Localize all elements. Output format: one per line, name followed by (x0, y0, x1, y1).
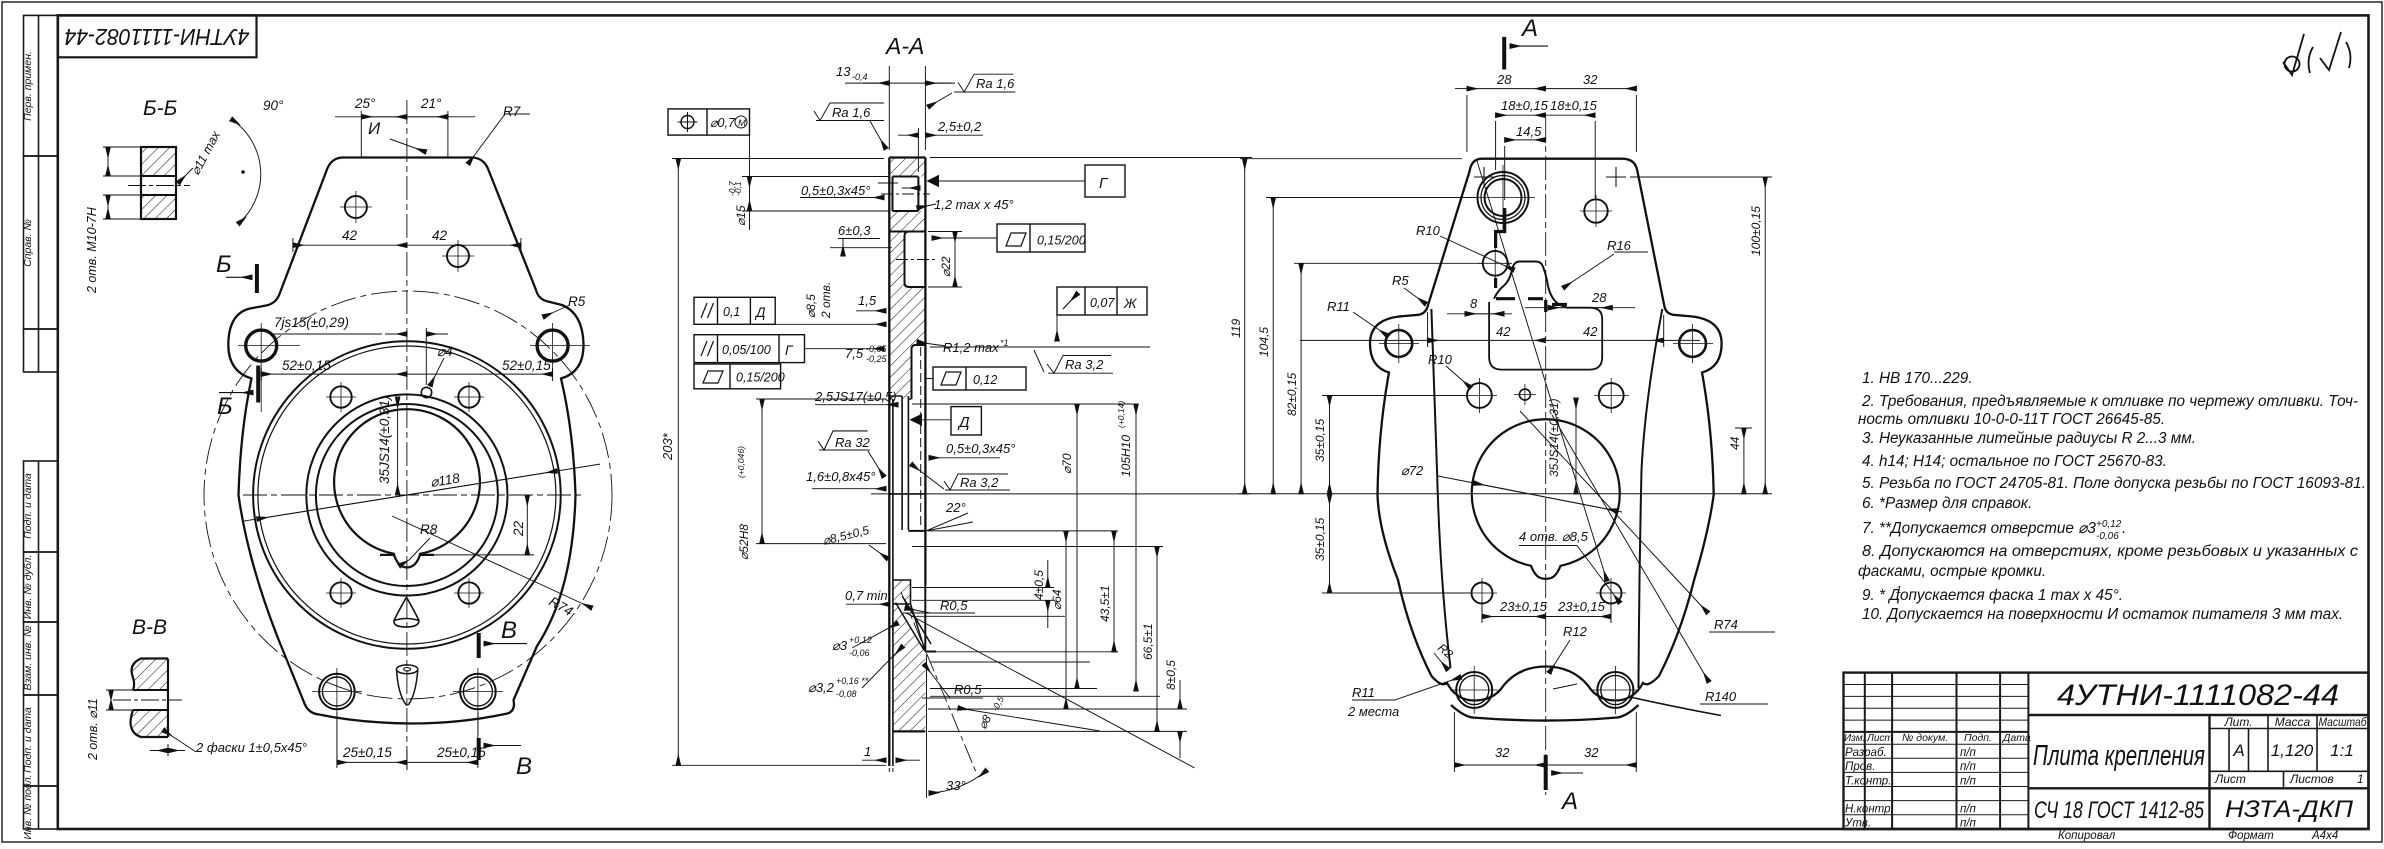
left side dims of section (672, 135, 962, 772)
svg-text:Масса: Масса (2275, 715, 2311, 729)
R0,5 lower leader (922, 697, 983, 699)
svg-text:100±0,15: 100±0,15 (1749, 206, 1763, 256)
bolt hole top-left (330, 386, 351, 407)
⌀22 counterbore cavity (905, 232, 926, 288)
svg-text:0,07: 0,07 (1090, 296, 1115, 310)
svg-text:В: В (501, 617, 517, 644)
svg-text:4УТНИ-1111082-44: 4УТНИ-1111082-44 (2057, 679, 2339, 712)
svg-text:28: 28 (1496, 72, 1512, 87)
vertical dim 66,5±1 (1156, 547, 1158, 732)
svg-text:Подп. и дата: Подп. и дата (22, 473, 34, 539)
svg-text:М: М (738, 118, 746, 129)
bottom edge sag (1451, 705, 1639, 721)
svg-text:№ докум.: № докум. (1902, 732, 1948, 744)
section A-A dimension texts (660, 64, 1178, 793)
leader R74 (392, 516, 592, 608)
4 отв ⌀8,5 leader (1519, 545, 1577, 547)
svg-text:п/п: п/п (1960, 761, 1977, 773)
view3 horizontal baseline (1239, 493, 1773, 495)
long leader to ⌀8,5 hole (1477, 161, 1607, 581)
svg-text:Ra 3,2: Ra 3,2 (960, 475, 999, 490)
svg-text:R74: R74 (547, 594, 576, 619)
90° countersink arc (231, 119, 261, 224)
dim 13-0,4 (888, 66, 890, 150)
svg-text:Ra 1,6: Ra 1,6 (976, 76, 1015, 91)
datum flag Г (927, 165, 1126, 197)
svg-text:6. *Размер для справок.: 6. *Размер для справок. (1862, 495, 2032, 512)
ear hole right (1679, 330, 1706, 357)
svg-text:⌀8,5: ⌀8,5 (804, 294, 818, 318)
svg-text:⌀0,7: ⌀0,7 (710, 116, 736, 130)
dim 32/32 (1453, 712, 1455, 772)
tolerance frame slope 0,07 Ж (1057, 287, 1147, 341)
svg-text:Б: Б (217, 393, 233, 420)
central bore with bottom notch (334, 409, 480, 567)
dim ⌀15 (742, 176, 890, 178)
svg-text:23±0,15: 23±0,15 (1557, 599, 1606, 614)
dim 52±0,15 / 52±0,15 (260, 368, 262, 381)
hump profile (1494, 262, 1566, 307)
view3 outline (1370, 159, 1722, 701)
svg-text:Плита крепления: Плита крепления (2033, 740, 2205, 772)
svg-text:14,5: 14,5 (1516, 124, 1542, 139)
small step near 0,7 min (893, 580, 911, 604)
feeder channel walls (896, 597, 932, 651)
bottom margin annotations (2058, 830, 2338, 842)
svg-text:-0,06: -0,06 (849, 648, 870, 658)
leader R10 #1 (1440, 236, 1514, 270)
view3 dim texts (1229, 15, 1763, 815)
view1 dimensions (243, 111, 600, 770)
feeder mark lower (cone) (396, 665, 417, 674)
svg-text:Изм.: Изм. (1844, 733, 1865, 744)
svg-text:Н.контр.: Н.контр. (1845, 804, 1894, 816)
svg-text:А: А (1520, 15, 1538, 42)
dim 119 (1244, 159, 1246, 494)
dim ⌀22 (830, 247, 892, 249)
flange face at center height (889, 493, 925, 495)
chamfer leader (163, 730, 196, 752)
title block texts (1844, 679, 2367, 830)
svg-text:42: 42 (342, 228, 358, 243)
leader 1,2 max x 45° (917, 204, 936, 208)
svg-text:А: А (1560, 788, 1578, 815)
svg-text:R10: R10 (1416, 223, 1441, 238)
bottom hole right (460, 674, 496, 710)
svg-text:-0,05: -0,05 (866, 344, 888, 354)
dim 42/42 (1427, 312, 1429, 347)
hatch fills (890, 158, 925, 731)
svg-text:⌀22: ⌀22 (939, 256, 953, 277)
svg-text:-0,4: -0,4 (852, 72, 868, 82)
svg-text:2 места: 2 места (1347, 704, 1399, 719)
leader R7 (468, 114, 505, 164)
svg-text:6±0,3: 6±0,3 (838, 223, 871, 238)
dim 42/42 (292, 238, 294, 252)
dim 35±0,15 lower (1329, 494, 1331, 593)
view1 casting reference circle (dash-dot) (204, 291, 612, 699)
svg-text:0,15/200: 0,15/200 (1037, 234, 1086, 248)
leader И (390, 139, 426, 152)
svg-text:1,120: 1,120 (2271, 741, 2314, 760)
leader from frames (775, 323, 886, 325)
section mark А top (1502, 37, 1506, 70)
22° chamfer wedge lines (926, 513, 973, 531)
cross mark right (1606, 167, 1626, 187)
svg-text:10. Допускается на поверхност: 10. Допускается на поверхности И остаток… (1862, 606, 2343, 623)
svg-text:23±0,15: 23±0,15 (1499, 599, 1548, 614)
strip right face (924, 158, 926, 586)
svg-text:90°: 90° (263, 98, 284, 113)
svg-text:21°: 21° (420, 96, 442, 111)
central bore circle with notch (1472, 419, 1620, 579)
svg-text:0,15/200: 0,15/200 (736, 371, 785, 385)
svg-text:Инв. № дубл.: Инв. № дубл. (22, 555, 34, 620)
svg-text:4. h14; Н14; остальное по ГОС: 4. h14; Н14; остальное по ГОСТ 25670-83. (1862, 453, 2167, 470)
svg-text:33°: 33° (946, 778, 966, 793)
vertical dim 43,5±1 (1113, 531, 1115, 652)
svg-text:35±0,15: 35±0,15 (1313, 517, 1327, 561)
svg-text:В-В: В-В (132, 616, 167, 639)
leader R140 (1552, 415, 1709, 682)
svg-text:⌀4: ⌀4 (437, 344, 453, 359)
strip left face (888, 158, 890, 767)
svg-text:Г: Г (1099, 175, 1109, 192)
dim 35JS14 (1575, 398, 1577, 494)
svg-text:28: 28 (1591, 290, 1607, 305)
svg-text:⌀70: ⌀70 (1060, 453, 1074, 474)
mid small hole (1519, 389, 1530, 400)
hole ⌀4 (421, 387, 431, 397)
svg-text:2 фаски 1±0,5х45°: 2 фаски 1±0,5х45° (195, 740, 307, 755)
svg-text:4УТНИ-1111082-44: 4УТНИ-1111082-44 (65, 24, 250, 50)
svg-text:0,5±0,3х45°: 0,5±0,3х45° (946, 441, 1015, 456)
tolerance frame 0,12 (927, 367, 1027, 390)
svg-text:Г: Г (785, 343, 794, 358)
svg-text:32: 32 (1583, 72, 1598, 87)
svg-text:2 отв. ⌀11: 2 отв. ⌀11 (86, 698, 100, 761)
svg-text:44: 44 (1728, 436, 1742, 450)
svg-text:А4х4: А4х4 (2311, 830, 2338, 842)
top face (889, 156, 925, 158)
dim 23±0,15 x2 (1481, 605, 1483, 623)
svg-text:⌀8,5±0,5: ⌀8,5±0,5 (821, 523, 870, 548)
ear hole left (1385, 330, 1412, 357)
bottom casting arc R140 (1630, 697, 1721, 716)
svg-text:R74: R74 (1714, 617, 1738, 632)
svg-text:35±0,15: 35±0,15 (1313, 418, 1327, 462)
svg-text:Дата: Дата (2002, 732, 2031, 744)
svg-text:Взам. инв. №: Взам. инв. № (22, 626, 34, 691)
svg-text:-0,7: -0,7 (727, 181, 737, 196)
step at R1,2 (912, 345, 926, 399)
svg-text:Ra 1,6: Ra 1,6 (832, 105, 871, 120)
pocket rounded rectangle (1489, 302, 1602, 370)
R0,5 upper leader (903, 612, 975, 614)
white feeder channel over hatch (896, 597, 932, 650)
svg-text:+0,12: +0,12 (2096, 519, 2122, 530)
В-В dims (106, 690, 196, 756)
svg-text:фасками, острые кромки.: фасками, острые кромки. (1858, 563, 2046, 580)
dim 22 (526, 495, 528, 555)
svg-text:4 отв. ⌀8,5: 4 отв. ⌀8,5 (1519, 529, 1589, 544)
svg-text:1,6±0,8х45°: 1,6±0,8х45° (806, 469, 875, 484)
svg-text:Д: Д (957, 414, 970, 431)
svg-text:25±0,15: 25±0,15 (436, 745, 486, 760)
svg-text:Копировал: Копировал (2058, 830, 2116, 842)
svg-text:2,5JS17(±0,5): 2,5JS17(±0,5) (814, 389, 897, 404)
svg-text:25°: 25° (354, 96, 376, 111)
svg-text:Формат: Формат (2228, 830, 2274, 842)
leader R11 (1353, 312, 1388, 336)
svg-text:п/п: п/п (1960, 804, 1977, 816)
svg-text:Утв.: Утв. (1844, 818, 1871, 830)
svg-text:.: . (2122, 520, 2126, 537)
roughness Ra1,6 right (954, 74, 1015, 92)
svg-text:43,5±1: 43,5±1 (1098, 585, 1112, 622)
dim 28/32 top (1466, 95, 1468, 152)
bore chord line (380, 554, 434, 556)
svg-text:R10: R10 (1428, 352, 1453, 367)
svg-text:0,7 min: 0,7 min (845, 588, 888, 603)
chamfer leader 0,5±0,3x45° (800, 197, 884, 199)
svg-text:3. Неуказанные литейные радиу: 3. Неуказанные литейные радиусы R 2...3 … (1862, 430, 2196, 447)
svg-text:п/п: п/п (1960, 818, 1977, 830)
left margin rotated labels (22, 51, 34, 839)
svg-text:8. Допускаются на отверстия: 8. Допускаются на отверстиях, кроме резь… (1862, 543, 2358, 560)
foot bottom (893, 730, 925, 732)
general roughness symbol top-right (2283, 32, 2350, 75)
В-В body (113, 659, 182, 738)
strip left inner face (1 mm wall) (892, 399, 894, 766)
bottom boss hole right (1597, 672, 1633, 708)
dim 1 bottom (888, 768, 890, 772)
line under bore band (889, 231, 925, 233)
leader R11 2 места (1395, 677, 1461, 700)
mid row hole left (1467, 383, 1492, 408)
left margin field boxes (24, 15, 58, 829)
leader R5 (543, 305, 570, 317)
svg-text:1. НВ 170...229.: 1. НВ 170...229. (1862, 370, 1973, 387)
leader R10 #2 (1446, 366, 1471, 388)
leader R12 (1549, 640, 1570, 673)
bolt hole bottom-right (458, 582, 479, 603)
view1 outline (228, 158, 583, 724)
svg-text:42: 42 (1583, 324, 1598, 339)
top-right hole (1584, 199, 1607, 222)
ear hole right (537, 330, 568, 361)
technical notes text block (1858, 370, 2366, 623)
Ra3,2 right: symbol + leader (1047, 356, 1113, 374)
dim 2,5±0,2 (917, 128, 919, 172)
svg-text:R140: R140 (1705, 689, 1737, 704)
svg-text:32: 32 (1495, 745, 1510, 760)
dim 6±0,3 (838, 238, 880, 240)
upper plate hole right (447, 245, 469, 267)
svg-text:Лист: Лист (2214, 772, 2246, 786)
dim 1,5 leader (856, 310, 886, 312)
bolt hole bottom-left (330, 582, 351, 603)
svg-text:R12: R12 (1563, 624, 1588, 639)
svg-text:22: 22 (511, 520, 526, 537)
svg-text:7js15(±0,29): 7js15(±0,29) (274, 315, 349, 330)
svg-text:-0,06: -0,06 (2096, 531, 2119, 542)
svg-text:п/п: п/п (1960, 776, 1977, 788)
⌀8 leader (907, 613, 1195, 768)
svg-text:НЗТА-ДКП: НЗТА-ДКП (2225, 796, 2354, 823)
left dim stack extensions (1240, 158, 1462, 160)
svg-text:Масштаб: Масштаб (2319, 717, 2367, 729)
svg-text:2 отв. М10-7Н: 2 отв. М10-7Н (85, 206, 99, 294)
svg-text:Перв. примен.: Перв. примен. (22, 51, 34, 121)
hidden line (920, 347, 922, 528)
svg-text:35JS14(±0,31): 35JS14(±0,31) (1547, 398, 1561, 477)
0,5±0,3x45° right leader (929, 457, 1000, 459)
dim 25°/21° top (360, 111, 362, 157)
33° arc (929, 770, 987, 793)
svg-text:R0,5: R0,5 (954, 682, 982, 697)
cross mark left (1474, 167, 1494, 187)
bottom boss hole left (1456, 672, 1492, 708)
Б-Б hatched body (128, 147, 190, 219)
dim 0,7 min (846, 603, 890, 605)
svg-text:104,5: 104,5 (1257, 327, 1271, 357)
svg-text:R7: R7 (503, 104, 521, 119)
svg-text:R1,2 max: R1,2 max (943, 340, 999, 355)
svg-text:7. **Допускается отверстие ⌀3: 7. **Допускается отверстие ⌀3 (1862, 520, 2096, 537)
svg-text:Лит.: Лит. (2223, 715, 2252, 729)
title block (1844, 673, 2369, 829)
svg-text:Подп. и дата: Подп. и дата (22, 707, 34, 773)
tolerance frame // 0,1 Д (694, 297, 775, 324)
leader R5 (1404, 288, 1426, 304)
svg-text:п/п: п/п (1960, 747, 1977, 759)
dim 100±0,15 (1630, 176, 1772, 178)
dim 25±0,15/25±0,15 (406, 750, 408, 770)
svg-text:Листов: Листов (2289, 772, 2334, 786)
svg-text:35JS14(±0,31): 35JS14(±0,31) (377, 396, 392, 484)
svg-text:*1: *1 (1000, 338, 1009, 348)
bolt hole top-right (458, 386, 479, 407)
dim 18±0,15 x2 (1495, 121, 1497, 170)
svg-text:⌀72: ⌀72 (1401, 463, 1424, 478)
svg-text:Подп.: Подп. (1964, 732, 1992, 744)
view3 vertical centerline (1545, 118, 1547, 795)
lower row hole left (1472, 583, 1493, 604)
svg-text:82±0,15: 82±0,15 (1285, 372, 1299, 416)
svg-text:1: 1 (1896, 585, 1902, 596)
vertical dim ⌀70 (1076, 404, 1078, 689)
leader ⌀11 max (178, 168, 193, 183)
left columns verticals (1865, 673, 2029, 829)
svg-text:0,1: 0,1 (723, 305, 740, 319)
svg-text:⌀11 max: ⌀11 max (188, 128, 223, 177)
svg-text:8: 8 (1470, 296, 1478, 311)
dim 203* (672, 158, 884, 160)
svg-text:Пров.: Пров. (1845, 761, 1875, 773)
svg-text:Лист: Лист (1866, 733, 1893, 744)
svg-text:+0,12: +0,12 (849, 635, 872, 645)
svg-text:Б-Б: Б-Б (143, 97, 177, 120)
dim 2,5JS17 (815, 404, 898, 406)
svg-text:⌀8: ⌀8 (975, 712, 994, 731)
svg-text:18±0,15: 18±0,15 (1501, 98, 1549, 113)
svg-text:2. Требования, предъявляемые: 2. Требования, предъявляемые к отливке п… (1861, 393, 2358, 410)
svg-text:0,12: 0,12 (973, 373, 997, 387)
svg-text:Разраб.: Разраб. (1845, 747, 1887, 759)
svg-text:R0,5: R0,5 (940, 598, 968, 613)
⌀22 axis dash (896, 259, 936, 261)
dim ⌀118 diagonal (243, 464, 600, 521)
right side extension lines (871, 158, 1252, 794)
svg-text:42: 42 (1496, 324, 1511, 339)
svg-text:Ж: Ж (1123, 296, 1138, 311)
Ra32 leader (818, 431, 870, 450)
section mark Б lower (219, 366, 258, 403)
svg-text:13: 13 (836, 64, 851, 79)
dim 104,5 (1272, 198, 1274, 494)
vertical dim 105H10 (1135, 404, 1137, 691)
svg-text:18±0,15: 18±0,15 (1550, 98, 1598, 113)
svg-text:В: В (516, 753, 532, 780)
leader ⌀8,5±0,5 (869, 545, 888, 559)
top dims of section (814, 66, 1015, 208)
cutting plane trace (thick jog) (1496, 208, 1567, 312)
svg-text:А-А: А-А (884, 33, 924, 59)
extension line for 33° (926, 655, 928, 798)
svg-text:-0,08: -0,08 (836, 689, 857, 699)
threaded boss circles (1478, 172, 1529, 223)
svg-text:R16: R16 (1607, 238, 1632, 253)
tolerance frame flatness 0,15/200 left (694, 364, 781, 389)
svg-text:1,2 max х 45°: 1,2 max х 45° (934, 197, 1014, 212)
vertical dim 4±0,5 (1047, 560, 1049, 588)
groove slot 2,5 (889, 396, 911, 530)
svg-text:А: А (2232, 741, 2244, 760)
lower row hole right (1601, 583, 1622, 604)
bore ⌀15 window (893, 177, 919, 212)
svg-text:42: 42 (432, 228, 448, 243)
dim 35±0,15 upper (1329, 396, 1331, 494)
svg-text:1: 1 (864, 744, 871, 759)
flange ring circles (253, 341, 561, 649)
svg-text:⌀64: ⌀64 (1050, 589, 1064, 610)
svg-text:R8: R8 (420, 522, 438, 537)
inner boss curve right (1639, 309, 1663, 688)
tolerance frame flatness 0,15/200 right (932, 224, 1085, 252)
section mark Б upper (226, 264, 257, 293)
datum flag Д (910, 407, 982, 435)
svg-text:-0,25: -0,25 (866, 354, 888, 364)
dim 44 (1735, 427, 1752, 429)
dim 8 (1447, 313, 1512, 315)
R1,2 leader (917, 342, 946, 346)
tolerance frame // 0,05/100 Г (694, 335, 805, 363)
feeder axis dash-dot (901, 592, 976, 772)
view3 dims (1240, 37, 1775, 790)
svg-text:25±0,15: 25±0,15 (342, 745, 392, 760)
svg-text:R11: R11 (1352, 685, 1375, 700)
svg-text:Ra 32: Ra 32 (835, 435, 870, 450)
section mark В upper (479, 633, 527, 658)
dim 82±0,15 (1300, 263, 1302, 494)
svg-text:22°: 22° (945, 500, 966, 515)
hole centerline (128, 185, 190, 187)
view1 centerline vertical (406, 100, 408, 770)
Б-Б dims (103, 119, 261, 224)
svg-text:66,5±1: 66,5±1 (1141, 623, 1155, 660)
svg-text:И: И (368, 119, 381, 138)
